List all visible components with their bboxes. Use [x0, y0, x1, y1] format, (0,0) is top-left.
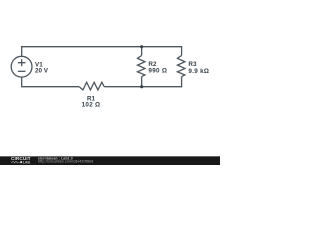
- svg-text:R3: R3: [188, 61, 197, 68]
- resistor R2: [138, 55, 145, 76]
- wire left vertical from top rail to V1: [21, 47, 23, 57]
- svg-text:http://circuitlab.com/c6v42r56: http://circuitlab.com/c6v42r56kd: [38, 160, 93, 164]
- wire V1 bottom to bottom rail: [21, 77, 23, 87]
- label V1 value 20 V: [35, 62, 49, 75]
- resistor R3: [177, 55, 184, 76]
- label R3 value 9.9 kΩ: [188, 61, 209, 75]
- wire R2 top lead: [141, 47, 143, 56]
- wire top rail: [21, 46, 182, 48]
- svg-text:102 Ω: 102 Ω: [82, 102, 101, 109]
- watermark text line 2: [38, 160, 93, 164]
- svg-text:990 Ω: 990 Ω: [148, 68, 167, 75]
- node junction dot top of R2: [140, 45, 143, 48]
- CircuitLab logo LAB block: [20, 161, 30, 165]
- label R2 value 990 Ω: [148, 61, 167, 75]
- label R1 value 102 Ω: [82, 96, 101, 109]
- CircuitLab logo CIRCUIT: [11, 156, 31, 161]
- wire R3 top lead: [181, 46, 183, 55]
- wire R3 bottom lead: [181, 77, 183, 88]
- svg-text:9.9 kΩ: 9.9 kΩ: [188, 68, 209, 75]
- voltage source V1: [11, 56, 32, 77]
- node junction dot bottom of R2: [140, 85, 143, 88]
- watermark text line 1: [38, 156, 73, 160]
- watermark bar: [0, 156, 220, 165]
- CircuitLab logo squiggle: [11, 161, 20, 163]
- svg-text:20 V: 20 V: [35, 68, 49, 75]
- resistor R1: [79, 82, 104, 90]
- wire R2 bottom lead: [141, 77, 143, 87]
- svg-text:LAB: LAB: [23, 161, 31, 165]
- wire bottom rail left segment: [21, 86, 79, 88]
- wire bottom rail right segment: [104, 86, 181, 88]
